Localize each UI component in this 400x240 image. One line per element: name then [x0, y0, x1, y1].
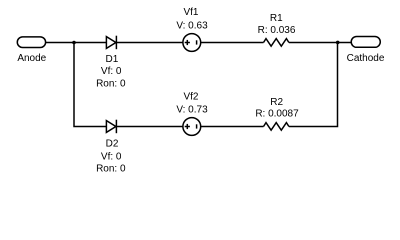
svg-text:Ron: 0: Ron: 0 — [96, 79, 126, 90]
diode D2 — [96, 120, 126, 175]
wire right vertical branch: R2 up to top rail — [289, 43, 338, 127]
svg-text:V: 0.63: V: 0.63 — [176, 20, 208, 31]
resistor R1 — [258, 13, 296, 46]
voltage source Vf1 — [176, 7, 208, 51]
svg-text:Cathode: Cathode — [347, 53, 385, 64]
svg-text:R2: R2 — [270, 97, 283, 108]
wire top rail right: R1 to Cathode — [289, 42, 351, 44]
node A junction dot — [72, 41, 76, 45]
diode D1 — [96, 36, 126, 90]
voltage source Vf2 — [176, 92, 208, 136]
wire bottom rail: D2 to Vf2 — [116, 126, 183, 128]
svg-text:D2: D2 — [106, 139, 119, 150]
svg-text:Ron: 0: Ron: 0 — [96, 163, 126, 174]
wire bottom rail: Vf2 to R2 — [201, 126, 264, 128]
svg-text:R: 0.0087: R: 0.0087 — [255, 109, 299, 120]
svg-text:R: 0.036: R: 0.036 — [258, 25, 296, 36]
svg-text:Anode: Anode — [17, 53, 46, 64]
svg-text:D1: D1 — [106, 54, 119, 65]
port Anode — [17, 37, 46, 64]
svg-text:Vf2: Vf2 — [183, 92, 198, 103]
port Cathode — [347, 37, 385, 65]
svg-text:Vf1: Vf1 — [183, 7, 198, 18]
svg-text:Vf: 0: Vf: 0 — [101, 151, 122, 162]
svg-text:R1: R1 — [270, 13, 283, 24]
svg-text:Vf: 0: Vf: 0 — [101, 66, 122, 77]
wire left vertical branch — [74, 43, 106, 127]
wire top rail: D1 to Vf1 — [116, 42, 183, 44]
wire top rail: Vf1 to R1 — [201, 42, 264, 44]
svg-text:V: 0.73: V: 0.73 — [176, 105, 208, 116]
wire top rail left: Anode to D1 — [46, 42, 107, 44]
resistor R2 — [255, 97, 299, 130]
node K junction dot — [336, 41, 340, 45]
